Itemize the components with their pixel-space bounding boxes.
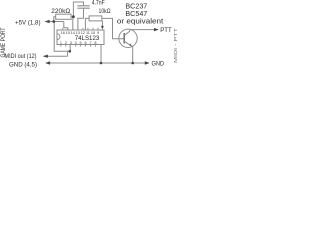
svg-text:MIDI - PTT: MIDI - PTT [173,28,178,63]
arrowhead MIDI out [43,55,48,58]
svg-text:or equivalent: or equivalent [117,19,163,26]
svg-text:10kΩ: 10kΩ [99,8,111,15]
svg-text:GAME PORT: GAME PORT [0,27,7,57]
IC bottom pin numbers [60,41,97,45]
wire +5V horizontal [45,21,64,23]
svg-text:16: 16 [61,31,65,35]
arrowhead GND left [45,61,50,64]
junction dot +5V [52,20,55,23]
svg-text:PTT: PTT [160,27,172,34]
IC notch [57,34,60,40]
wire IC gnd pin to ground rail [100,45,102,64]
svg-text:15: 15 [66,31,70,35]
capacitor C1 plates [77,6,90,8]
svg-text:4.7nF: 4.7nF [92,0,105,6]
svg-text:BC547: BC547 [125,11,147,18]
wire +5V jog down to pin15 [64,22,68,31]
wire C1 bottom jog to pin13 [78,9,84,30]
arrowhead PTT [154,28,159,31]
svg-text:BC237: BC237 [125,4,147,11]
transistor Q1 collector diagonal [124,31,130,35]
svg-text:74LS123: 74LS123 [75,35,100,42]
IC bottom pin stubs [61,45,96,47]
transistor Q1 emitter arrowhead [129,43,132,46]
arrowhead GND right [145,61,150,64]
svg-text:1: 1 [60,41,62,45]
junction dot R1/C1 node [72,15,75,18]
svg-text:GND: GND [152,61,165,68]
resistor R1 220k [56,14,71,19]
arrowhead +5V [45,20,50,23]
svg-text:MIDI out (12): MIDI out (12) [5,53,37,60]
svg-text:2: 2 [65,41,67,45]
junction dot MIDI riser node [69,50,72,53]
svg-text:+5V (1,8): +5V (1,8) [15,19,41,26]
wire R2 corner stub to pin9 [101,21,103,30]
IC top pin numbers [61,31,100,35]
wire +5V branch down to bottom node [54,22,67,52]
wire MIDI out horizontal [44,55,68,57]
wire emitter down to ground rail [132,47,134,63]
transistor Q1 base bar [123,33,125,44]
wire node up over to C1 top [73,2,83,17]
wire PTT from collector [130,30,158,32]
svg-text:3: 3 [70,41,72,45]
IC U1 74LS123 body [57,30,104,45]
IC top pin stubs [63,28,98,30]
wire R1 right lead to node [71,16,73,18]
wire R2 left lead down to pin11 [85,18,89,30]
transistor Q1 emitter diagonal [124,41,132,46]
wire MIDI riser jog up to pin3 [68,45,71,57]
wire ground rail [46,62,149,64]
junction dot pin9 stub [101,26,103,28]
svg-text:GND (4,5): GND (4,5) [9,61,37,68]
junction dot emitter on rail [131,62,134,65]
wire node down to pin14 [72,17,74,30]
transistor Q1 circle [119,29,137,47]
wire +5V up to R1 left lead [54,17,56,22]
wire R2 right lead to Q1 base [102,18,124,38]
resistor R2 10k [89,16,102,21]
junction dot IC gnd on rail [100,62,103,65]
svg-text:220kΩ: 220kΩ [51,8,70,15]
